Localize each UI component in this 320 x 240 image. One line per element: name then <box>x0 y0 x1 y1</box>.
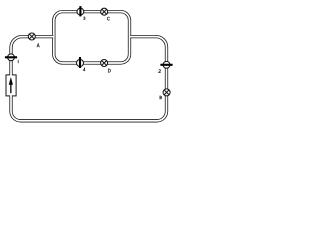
wire: outer pipe run (pump -> 1 -> A -> loop inlet T, loop outlet T -> 2 -> B -> bottom return to pump) <box>11 37 167 121</box>
label 3 <box>83 17 85 20</box>
valve C (circle with X on top branch) <box>101 8 108 15</box>
label 1 <box>17 61 20 64</box>
valve D (circle with X on bottom branch) <box>101 60 108 67</box>
label B <box>160 96 162 99</box>
pump (rectangle with upward arrow on left pipe) <box>6 74 16 97</box>
label 4 <box>83 68 85 71</box>
component 3 (circle with cross bar on top branch) <box>77 6 84 16</box>
valve A (circle with X on inlet pipe) <box>28 33 35 40</box>
component 4 (circle with cross bar on bottom branch) <box>77 57 84 68</box>
label C <box>107 17 109 20</box>
label 2 <box>159 70 161 73</box>
valve B (circle with X on right pipe) <box>163 89 170 96</box>
label A <box>37 44 40 48</box>
wire: inner loop racetrack (top branch with 3,C and bottom branch with 4,D) <box>54 12 130 63</box>
label D <box>108 69 110 72</box>
component 2 (circle with cross bar on right pipe) <box>160 61 172 68</box>
component 1 (circle with cross bar on left pipe) <box>5 54 17 61</box>
